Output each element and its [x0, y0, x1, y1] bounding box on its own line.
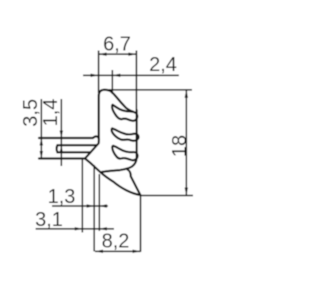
svg-text:6,7: 6,7 — [103, 34, 131, 56]
svg-text:8,2: 8,2 — [102, 230, 130, 252]
svg-text:3,5: 3,5 — [20, 99, 42, 127]
svg-text:18: 18 — [169, 135, 191, 157]
svg-text:2,4: 2,4 — [149, 54, 177, 76]
svg-text:3,1: 3,1 — [35, 209, 63, 231]
svg-text:1,3: 1,3 — [48, 186, 76, 208]
svg-text:1,4: 1,4 — [40, 99, 62, 127]
